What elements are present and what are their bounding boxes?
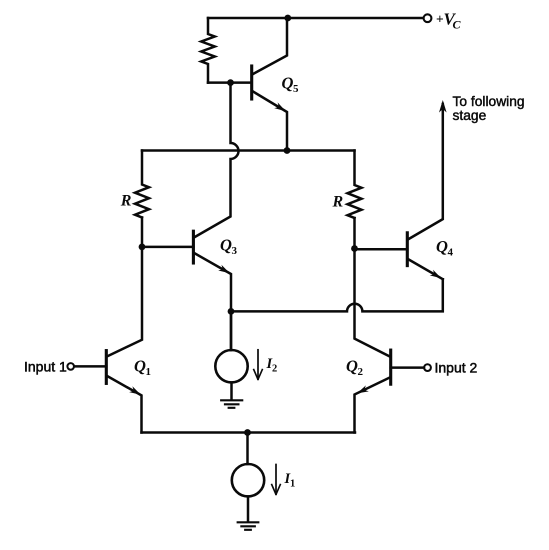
- label +VC: [436, 10, 462, 32]
- node rail/Q5 collector junction: [284, 15, 291, 22]
- current source I2: [230, 311, 233, 350]
- output arrow to following stage: [439, 100, 447, 113]
- svg-text:2: 2: [272, 364, 277, 375]
- transistor Q3: [192, 231, 195, 263]
- svg-text:Q: Q: [282, 74, 294, 93]
- wire Q4 base: [355, 248, 408, 251]
- wire left column (R bottom through Q3 base node to Q1 collector): [108, 218, 142, 357]
- node bus/Q5 emitter junction: [284, 147, 291, 154]
- svg-text:1: 1: [146, 366, 152, 378]
- wire top supply rail: [208, 17, 423, 20]
- wire Q1 base: [74, 365, 106, 368]
- svg-text:2: 2: [358, 366, 364, 378]
- svg-text:1: 1: [290, 479, 295, 490]
- label Q2: [346, 357, 364, 379]
- +VC terminal: [424, 14, 432, 22]
- label Q1: [134, 357, 151, 379]
- label Q3: [220, 236, 238, 258]
- Input 1 terminal: [67, 363, 74, 370]
- resistor R (right): [348, 151, 362, 219]
- node I1 tap: [244, 429, 251, 436]
- transistor Q2: [389, 350, 392, 384]
- Input 2 terminal: [424, 364, 431, 371]
- wire Q5 base node down to Q3 collector (hops over bus): [195, 83, 239, 237]
- label I1: [284, 471, 296, 490]
- node Q3 emitter / I2 tap: [228, 308, 235, 315]
- wire emitters join line (Q3/Q4, hops over right column): [231, 279, 443, 311]
- label To following stage: [453, 94, 525, 123]
- svg-text:stage: stage: [453, 108, 487, 123]
- I2 arrow: [254, 350, 263, 380]
- svg-text:R: R: [120, 193, 132, 210]
- transistor Q1: [105, 351, 108, 384]
- I1 arrow: [272, 465, 281, 495]
- ground (I2): [221, 400, 242, 408]
- wire Rtop bottom to Q5 base: [208, 81, 251, 84]
- ground (I1): [238, 522, 259, 530]
- wire mid bus (Q5 emitter to R branches): [142, 149, 355, 152]
- svg-text:4: 4: [448, 247, 454, 259]
- label Q5: [282, 74, 300, 96]
- wire right column (R bottom through Q4 base node to Q2 collector): [355, 218, 390, 356]
- svg-text:To following: To following: [453, 94, 525, 109]
- transistor Q5: [250, 66, 253, 99]
- svg-text:Q: Q: [346, 357, 358, 376]
- svg-text:Q: Q: [220, 236, 232, 255]
- node Q3 base / R / Q1 collector: [139, 244, 146, 251]
- svg-text:5: 5: [293, 83, 299, 95]
- svg-text:3: 3: [232, 245, 238, 257]
- current source I1: [246, 433, 249, 465]
- svg-text:Input 1: Input 1: [24, 359, 67, 375]
- svg-text:C: C: [453, 18, 462, 32]
- resistor R (left): [135, 151, 149, 218]
- svg-text:Q: Q: [134, 357, 146, 376]
- node Q5 base / Q3 collector feed: [227, 79, 234, 86]
- svg-text:Input 2: Input 2: [435, 360, 478, 376]
- wire Q3 base: [142, 246, 193, 249]
- resistor Rtop (bias resistor): [201, 18, 215, 83]
- label Q4: [436, 237, 454, 259]
- svg-text:R: R: [332, 194, 344, 211]
- node Q4 base / R / Q2 collector: [351, 245, 358, 252]
- label I2: [266, 356, 278, 375]
- wire Q2 base: [391, 366, 424, 369]
- wire bottom bus (Q1/Q2 emitters): [142, 431, 356, 434]
- svg-text:Q: Q: [436, 237, 448, 256]
- transistor Q4: [406, 233, 409, 266]
